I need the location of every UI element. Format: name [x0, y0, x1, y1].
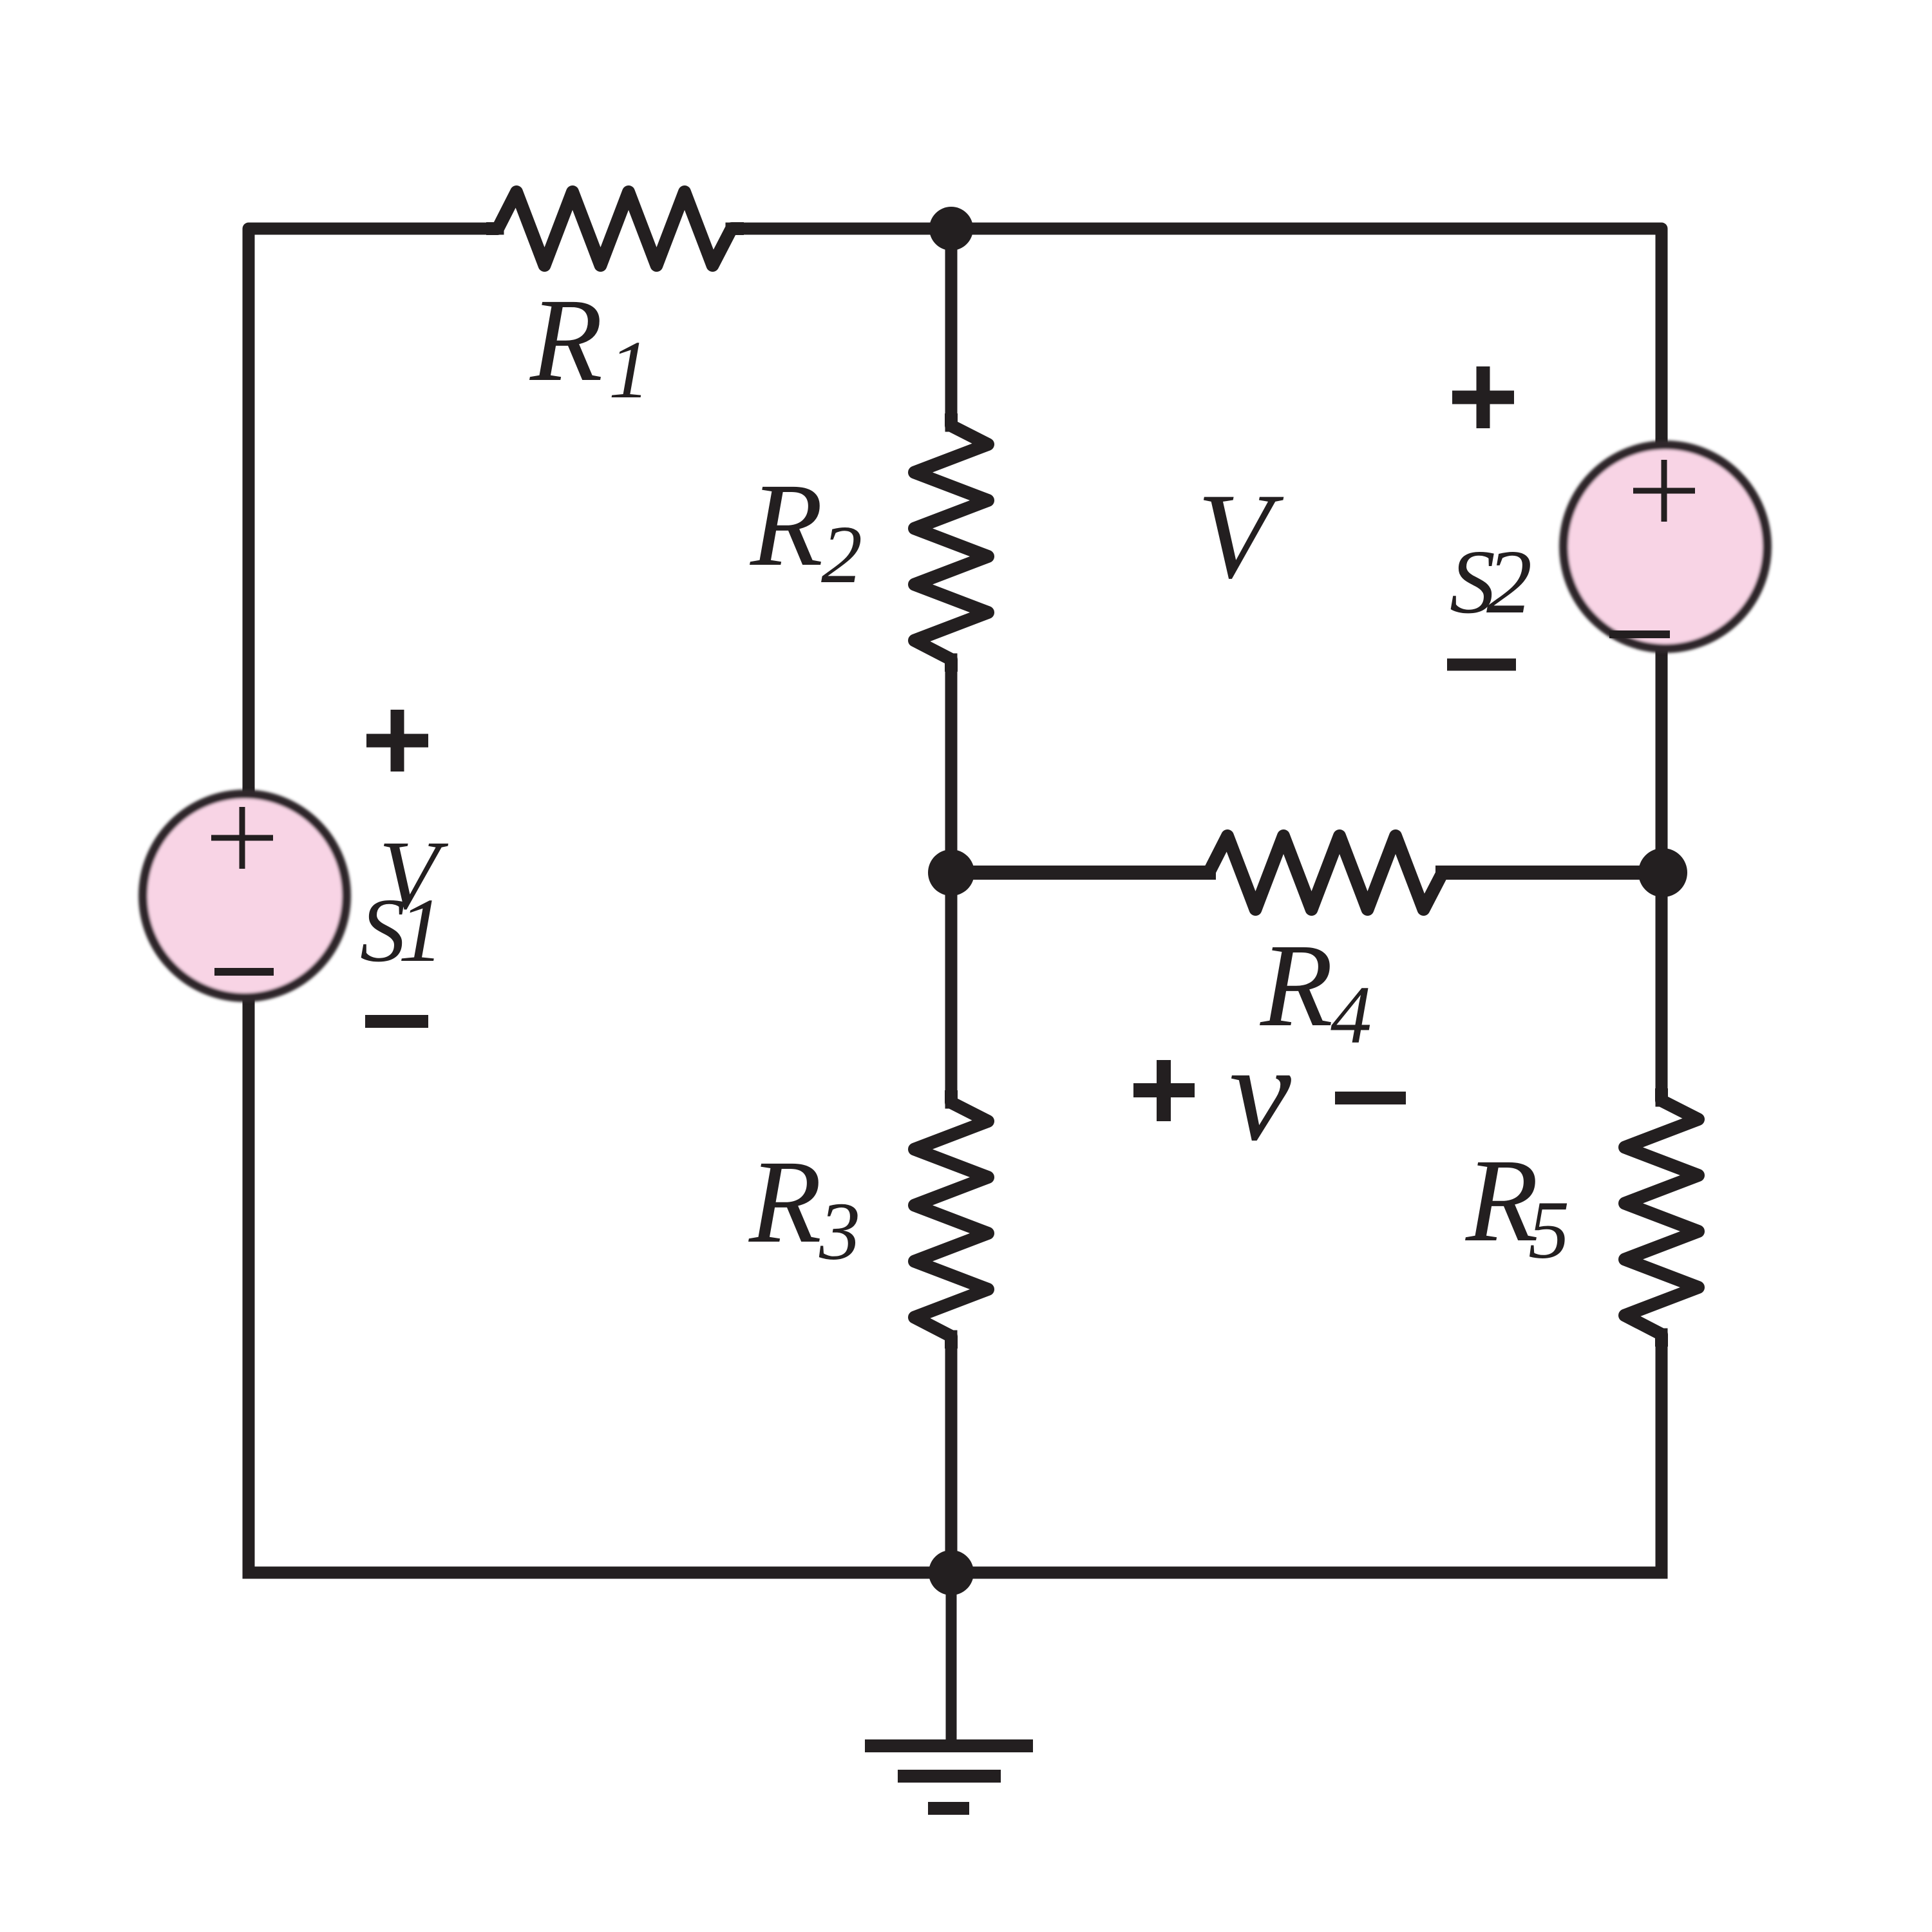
- wire S2 to node C: [1656, 652, 1668, 873]
- voltage source S1: [143, 794, 346, 998]
- svg-text:1: 1: [398, 879, 444, 981]
- minus sign of v: [1335, 1092, 1406, 1104]
- svg-text:R: R: [529, 274, 603, 406]
- svg-text:3: 3: [819, 1186, 860, 1277]
- ground: [865, 1739, 1033, 1815]
- node A (top junction): [929, 207, 973, 251]
- node C (right junction): [1638, 848, 1687, 897]
- label V of VS2: [1197, 469, 1284, 604]
- resistor R1: [486, 192, 744, 265]
- svg-text:V: V: [1197, 469, 1284, 604]
- node B (middle junction): [928, 849, 974, 896]
- wire R1 to node A: [732, 223, 951, 235]
- wire ground stem: [946, 1573, 957, 1741]
- voltage source S2: [1564, 445, 1767, 649]
- svg-text:5: 5: [1528, 1184, 1569, 1276]
- minus sign of VS1: [365, 1015, 428, 1028]
- svg-text:v: v: [1229, 1016, 1291, 1170]
- svg-text:2: 2: [1486, 531, 1532, 632]
- wire R3 to node D: [945, 1336, 958, 1573]
- label v across R4: [1229, 1016, 1291, 1170]
- wire R5 to bottom-right corner: [1656, 1334, 1668, 1573]
- plus sign of v: [1133, 1060, 1195, 1121]
- resistor R2: [914, 413, 988, 672]
- wire node A to top-right corner down to S2: [951, 229, 1662, 444]
- node D (bottom junction): [929, 1550, 974, 1595]
- label R3: [748, 1136, 860, 1277]
- label V of VS1: [360, 821, 449, 981]
- resistor R3: [914, 1090, 988, 1349]
- wire bottom rail: [249, 1567, 1662, 1579]
- label S2 subscript: [1450, 531, 1532, 632]
- svg-text:R: R: [748, 1136, 822, 1268]
- svg-text:4: 4: [1331, 969, 1372, 1061]
- wire node B to R4: [951, 866, 1209, 880]
- wire node A to R2: [945, 229, 958, 426]
- plus sign of VS2: [1452, 366, 1514, 428]
- svg-text:2: 2: [821, 509, 862, 600]
- wire node B to R3: [945, 873, 958, 1103]
- label R5: [1465, 1135, 1569, 1276]
- label R2: [750, 459, 862, 600]
- wire R2 to node B: [945, 659, 958, 873]
- plus sign of VS1: [366, 710, 428, 772]
- wire S1 to bottom-left corner: [243, 999, 255, 1573]
- svg-text:1: 1: [609, 324, 650, 415]
- wire node C to R5: [1656, 873, 1668, 1101]
- wire R4 to node C: [1443, 866, 1662, 880]
- wire top-left segment: [249, 229, 498, 792]
- resistor R5: [1625, 1088, 1698, 1347]
- svg-text:R: R: [750, 459, 823, 591]
- minus sign of VS2: [1447, 659, 1516, 671]
- label R4: [1260, 920, 1372, 1061]
- svg-text:R: R: [1465, 1135, 1539, 1267]
- label R1: [529, 274, 650, 415]
- resistor R4: [1197, 836, 1455, 909]
